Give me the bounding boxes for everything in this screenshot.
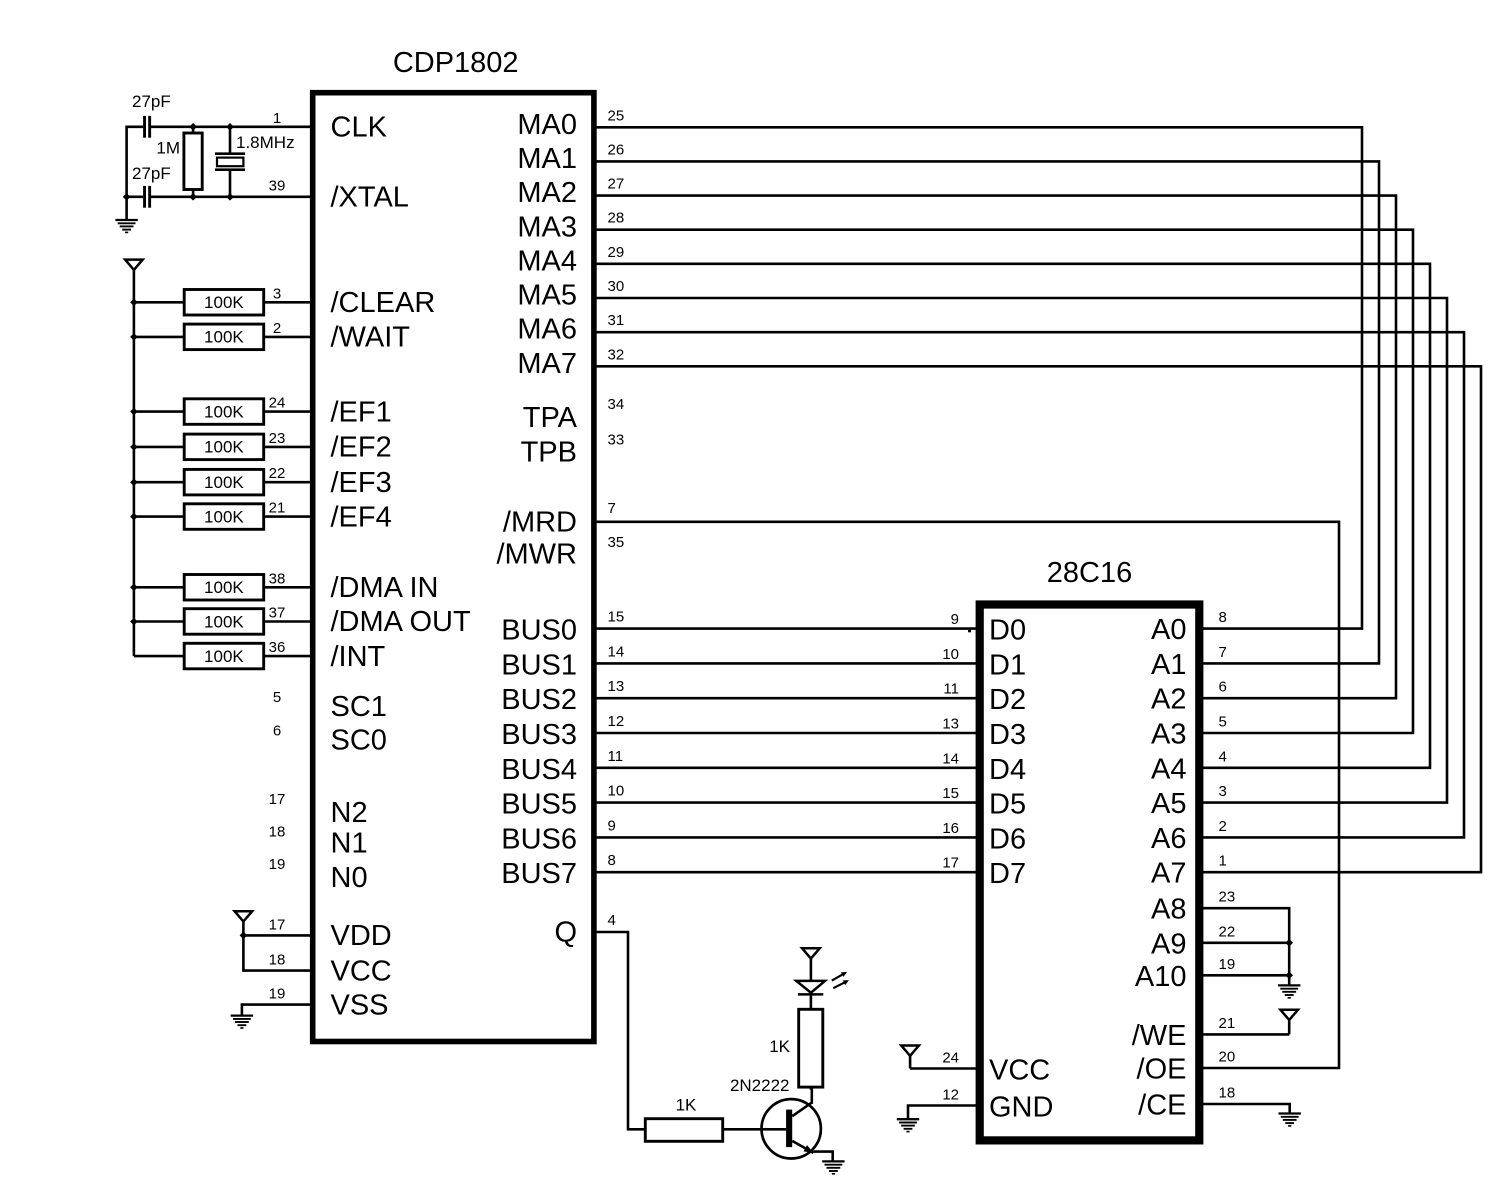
U1 pin 12 BUS3 [501, 713, 624, 751]
svg-text:N2: N2 [331, 797, 368, 829]
svg-text:22: 22 [269, 465, 286, 482]
wire MA3 to A3 [594, 230, 1413, 733]
U2 pin 6 A2 [1151, 679, 1227, 716]
U2 pin 20 /OE [1137, 1049, 1236, 1086]
resistor R9 100K (/DMA OUT) [134, 609, 312, 635]
U2 pin 24 VCC [910, 1050, 1050, 1087]
svg-text:13: 13 [608, 678, 625, 695]
R2 value 100K [204, 293, 244, 312]
svg-text:11: 11 [943, 681, 959, 698]
U1 pin 34 TPA [523, 396, 624, 434]
U1 pin 21 /EF4 [269, 500, 392, 534]
svg-text:MA7: MA7 [517, 348, 577, 380]
svg-text:MA1: MA1 [517, 143, 577, 175]
wire MA7 to A7 [594, 366, 1481, 872]
U1 pin 3 /CLEAR [273, 285, 435, 319]
svg-text:1K: 1K [769, 1037, 790, 1056]
svg-text:SC1: SC1 [331, 691, 387, 723]
svg-text:21: 21 [1219, 1015, 1236, 1032]
svg-text:19: 19 [269, 986, 286, 1003]
svg-text:/EF4: /EF4 [331, 501, 392, 533]
U2 pin 2 A6 [1151, 818, 1227, 855]
U2 pin 23 A8 [1151, 889, 1289, 986]
R10 value 100K [204, 647, 244, 666]
junction rail / /EF1 [130, 408, 138, 416]
D1 light arrow lower [833, 980, 849, 988]
svg-text:A0: A0 [1151, 614, 1186, 646]
svg-text:20: 20 [1219, 1049, 1236, 1066]
svg-text:A6: A6 [1151, 823, 1186, 855]
resistor R6 100K (/EF3) [134, 469, 312, 495]
wire Q1 collector to R11 [810, 1087, 813, 1089]
svg-text:30: 30 [608, 278, 625, 295]
U1 pin 17 N2 [269, 791, 368, 829]
wire BUS3 to D3 [594, 732, 981, 735]
wire BUS4 to D4 [594, 766, 981, 769]
svg-text:35: 35 [608, 534, 625, 551]
svg-text:/WAIT: /WAIT [331, 322, 411, 354]
U1 pin 37 /DMA OUT [269, 605, 471, 639]
ground /CE [1279, 1114, 1301, 1126]
chip U2 28C16 [980, 605, 1200, 1141]
U2 pin 10 D1 [942, 646, 1026, 682]
svg-text:14: 14 [608, 643, 625, 660]
wire Q to R10 [594, 932, 645, 1129]
wire pull-up rail [133, 302, 136, 656]
Q1 collector [792, 1087, 812, 1116]
Q1 emitter [792, 1141, 813, 1153]
Q1 label 2N2222 [730, 1076, 790, 1095]
U1 pin 32 MA7 [517, 346, 624, 380]
svg-text:SC0: SC0 [331, 724, 387, 756]
svg-text:BUS3: BUS3 [501, 719, 577, 751]
svg-text:8: 8 [608, 852, 616, 869]
svg-text:19: 19 [269, 856, 286, 873]
ground emitter [822, 1161, 844, 1173]
svg-text:15: 15 [942, 785, 959, 802]
svg-text:16: 16 [942, 820, 959, 837]
R7 value 100K [204, 507, 244, 526]
U1 pin 22 /EF3 [269, 465, 392, 499]
wire BUS2 to D2 [594, 697, 981, 700]
power VCC (LED) [802, 948, 820, 958]
U1 pin 10 BUS5 [501, 783, 624, 821]
R9 value 100K [204, 612, 244, 631]
U1 pin 7 /MRD [503, 500, 616, 539]
U1 pin 15 BUS0 [501, 609, 624, 647]
U2 pin 11 D2 [943, 681, 1026, 717]
U2 pin 8 A0 [1151, 609, 1227, 646]
C2 value 27pF [132, 164, 171, 183]
svg-text:24: 24 [269, 395, 286, 412]
svg-text:A8: A8 [1151, 894, 1186, 926]
U1 pin 14 BUS1 [501, 643, 624, 681]
wire BUS1 to D1 [594, 662, 981, 665]
U2 pin 1 A7 [1151, 853, 1227, 890]
U2 pin 9 D0 [951, 611, 1026, 647]
svg-text:BUS1: BUS1 [501, 649, 577, 681]
power VDD pull-up rail [125, 260, 143, 303]
wire XTAL net (pin 39 bottom) [127, 196, 312, 199]
svg-text:21: 21 [269, 500, 286, 517]
R6 value 100K [204, 473, 244, 492]
svg-text:A5: A5 [1151, 788, 1186, 820]
svg-text:BUS0: BUS0 [501, 615, 577, 647]
svg-text:7: 7 [608, 500, 616, 517]
U1 pin 1 CLK [273, 110, 388, 144]
svg-text:10: 10 [942, 646, 959, 663]
chip U1 CDP1802 [313, 93, 594, 1042]
svg-text:A2: A2 [1151, 684, 1186, 716]
svg-text:D7: D7 [989, 858, 1026, 890]
crystal Y1 1.8MHz [215, 127, 245, 197]
svg-text:37: 37 [269, 605, 286, 622]
resistor R1 1M [184, 127, 202, 197]
svg-text:MA0: MA0 [517, 109, 577, 141]
svg-text:/CE: /CE [1138, 1090, 1186, 1122]
R8 value 100K [204, 578, 244, 597]
junction rail / /WAIT [130, 333, 138, 341]
svg-text:BUS7: BUS7 [501, 858, 577, 890]
svg-text:24: 24 [942, 1050, 959, 1067]
power VCC (U2) [901, 1046, 919, 1069]
svg-text:/CLEAR: /CLEAR [331, 287, 436, 319]
U1 pin 28 MA3 [517, 210, 624, 244]
svg-text:VCC: VCC [989, 1055, 1050, 1087]
U1 pin 38 /DMA IN [269, 570, 439, 604]
svg-text:3: 3 [1219, 783, 1227, 800]
U1 pin 33 TPB [521, 432, 625, 469]
junction artifact near D0 [968, 629, 971, 632]
svg-text:34: 34 [608, 396, 625, 413]
wire MA6 to A6 [594, 332, 1464, 837]
U1 pin 23 /EF2 [269, 430, 392, 464]
svg-text:GND: GND [989, 1092, 1053, 1124]
U1 pin 31 MA6 [517, 312, 624, 346]
svg-text:A4: A4 [1151, 753, 1186, 785]
svg-text:100K: 100K [204, 578, 244, 597]
svg-text:100K: 100K [204, 328, 244, 347]
svg-text:BUS2: BUS2 [501, 684, 577, 716]
svg-text:14: 14 [942, 750, 959, 767]
svg-text:28: 28 [608, 210, 625, 227]
svg-text:D4: D4 [989, 754, 1026, 786]
U1 pin 5 SC1 [273, 689, 387, 723]
svg-text:TPB: TPB [521, 436, 577, 468]
power VDD (/WE) [1280, 1010, 1298, 1035]
svg-text:/EF1: /EF1 [331, 396, 392, 428]
svg-text:4: 4 [608, 912, 616, 929]
svg-text:18: 18 [1219, 1085, 1236, 1102]
svg-text:VDD: VDD [331, 920, 392, 952]
svg-text:1: 1 [273, 110, 281, 127]
svg-text:100K: 100K [204, 438, 244, 457]
U2 pin 18 /CE [1138, 1085, 1290, 1122]
svg-text:D1: D1 [989, 649, 1026, 681]
svg-text:D3: D3 [989, 719, 1026, 751]
svg-text:D6: D6 [989, 823, 1026, 855]
svg-text:22: 22 [1219, 923, 1236, 940]
svg-text:CDP1802: CDP1802 [393, 47, 519, 79]
wire Q1 emitter to ground [814, 1152, 833, 1162]
ground U2 GND [897, 1119, 919, 1131]
U1 pin 24 /EF1 [269, 395, 392, 429]
svg-text:CLK: CLK [331, 112, 388, 144]
svg-text:1K: 1K [676, 1096, 697, 1115]
U2 pin 21 /WE [1132, 1015, 1289, 1052]
wire BUS6 to D6 [594, 836, 981, 839]
ground crystal [115, 220, 137, 232]
svg-text:5: 5 [273, 689, 281, 706]
svg-text:17: 17 [269, 916, 286, 933]
svg-text:N0: N0 [331, 862, 368, 894]
capacitor C1 27pF [143, 116, 151, 138]
junction bottom wire / ground rail [123, 193, 131, 201]
svg-text:13: 13 [942, 716, 959, 733]
U2 pin 4 A4 [1151, 748, 1227, 785]
capacitor C2 27pF [143, 186, 151, 208]
U2 pin 7 A1 [1151, 644, 1227, 681]
svg-text:/MWR: /MWR [496, 538, 577, 570]
svg-text:12: 12 [608, 713, 625, 730]
svg-text:/DMA IN: /DMA IN [331, 572, 439, 604]
C1 value 27pF [132, 92, 171, 111]
svg-text:9: 9 [608, 817, 616, 834]
svg-text:2N2222: 2N2222 [730, 1076, 790, 1095]
svg-text:15: 15 [608, 609, 625, 626]
svg-text:25: 25 [608, 107, 625, 124]
svg-text:/EF2: /EF2 [331, 432, 392, 464]
svg-text:33: 33 [608, 432, 625, 449]
resistor R8 100K (/DMA IN) [134, 575, 312, 601]
svg-text:4: 4 [1219, 748, 1227, 765]
svg-text:100K: 100K [204, 293, 244, 312]
U1 pin 2 /WAIT [273, 320, 410, 354]
svg-text:29: 29 [608, 244, 625, 261]
wire MA0 to A0 [594, 127, 1362, 628]
wire crystal ground rail [125, 126, 128, 221]
svg-text:38: 38 [269, 570, 286, 587]
R4 value 100K [204, 402, 244, 421]
svg-text:BUS4: BUS4 [501, 754, 577, 786]
svg-text:A7: A7 [1151, 858, 1186, 890]
U2 pin 15 D5 [942, 785, 1026, 821]
svg-text:/INT: /INT [331, 641, 386, 673]
svg-text:/MRD: /MRD [503, 507, 577, 539]
R10 value 1K [676, 1096, 697, 1115]
U1 pin 39 /XTAL [269, 177, 409, 213]
svg-text:/DMA OUT: /DMA OUT [331, 606, 471, 638]
svg-text:D0: D0 [989, 615, 1026, 647]
svg-text:/XTAL: /XTAL [331, 182, 409, 214]
junction rail / /CLEAR [130, 299, 138, 307]
svg-text:VSS: VSS [331, 989, 389, 1021]
svg-text:31: 31 [608, 312, 625, 329]
svg-text:2: 2 [273, 320, 281, 337]
svg-text:100K: 100K [204, 647, 244, 666]
U2 pin 16 D6 [942, 820, 1026, 856]
ground VSS [231, 1016, 253, 1028]
U1 pin 17 VDD [243, 916, 391, 952]
U1 pin 6 SC0 [273, 722, 387, 756]
svg-text:A9: A9 [1151, 928, 1186, 960]
svg-text:17: 17 [269, 791, 286, 808]
transistor Q1 2N2222 [762, 1099, 821, 1158]
svg-text:100K: 100K [204, 402, 244, 421]
svg-text:MA4: MA4 [517, 245, 577, 277]
U2 pin 14 D4 [942, 750, 1026, 786]
svg-text:19: 19 [1219, 956, 1236, 973]
junction bottom wire / Y1 [226, 193, 234, 201]
svg-text:5: 5 [1219, 714, 1227, 731]
U1 pin 29 MA4 [517, 244, 624, 278]
svg-text:27: 27 [608, 176, 625, 193]
wire MA1 to A1 [594, 161, 1379, 663]
svg-text:32: 32 [608, 346, 625, 363]
svg-text:28C16: 28C16 [1047, 557, 1132, 589]
wire MA4 to A4 [594, 264, 1430, 768]
svg-text:MA5: MA5 [517, 280, 577, 312]
svg-text:A10: A10 [1135, 961, 1187, 993]
svg-text:17: 17 [942, 855, 959, 872]
wire R11 to LED [810, 995, 813, 1010]
svg-text:100K: 100K [204, 473, 244, 492]
svg-text:18: 18 [269, 823, 286, 840]
wire R10 to Q1 base [723, 1128, 786, 1131]
svg-text:VCC: VCC [331, 955, 392, 987]
U2 pin 13 D3 [942, 716, 1026, 752]
svg-text:6: 6 [273, 722, 281, 739]
svg-text:/OE: /OE [1137, 1054, 1187, 1086]
svg-text:26: 26 [608, 141, 625, 158]
junction top wire / R1 [189, 123, 197, 131]
svg-text:N1: N1 [331, 827, 368, 859]
U2 pin 17 D7 [942, 855, 1026, 891]
svg-text:2: 2 [1219, 818, 1227, 835]
svg-text:1.8MHz: 1.8MHz [236, 133, 295, 152]
junction VDD / VCC drop [240, 932, 248, 940]
wire BUS5 to D5 [594, 801, 981, 804]
svg-text:/EF3: /EF3 [331, 467, 392, 499]
U1 pin 27 MA2 [517, 176, 624, 210]
svg-text:1M: 1M [156, 139, 180, 158]
svg-text:MA2: MA2 [517, 177, 577, 209]
svg-text:Q: Q [554, 917, 577, 949]
svg-text:TPA: TPA [523, 402, 578, 434]
power VDD (U1) [235, 911, 253, 935]
svg-text:11: 11 [608, 748, 624, 765]
resistor R3 100K (/WAIT) [134, 324, 312, 350]
U2 pin 5 A3 [1151, 714, 1227, 751]
svg-text:BUS6: BUS6 [501, 823, 577, 855]
resistor R7 100K (/EF4) [134, 504, 312, 530]
U1 pin 35 /MWR [496, 534, 624, 571]
svg-text:39: 39 [269, 177, 286, 194]
U1 pin 8 BUS7 [501, 852, 616, 890]
svg-text:3: 3 [273, 285, 281, 302]
resistor R10 1K [645, 1119, 722, 1142]
junction top wire / Y1 [226, 123, 234, 131]
svg-text:D2: D2 [989, 684, 1026, 716]
U1 pin 11 BUS4 [501, 748, 623, 786]
wire MA5 to A5 [594, 298, 1447, 803]
svg-text:BUS5: BUS5 [501, 789, 577, 821]
R3 value 100K [204, 328, 244, 347]
junction rail / /DMA IN [130, 584, 138, 592]
ground A8-A10 [1278, 985, 1300, 997]
U1 pin 26 MA1 [517, 141, 624, 175]
svg-text:1: 1 [1219, 853, 1227, 870]
wire BUS7 to D7 [594, 871, 981, 874]
U1 pin 36 /INT [269, 639, 386, 673]
junction bottom wire / R1 [189, 193, 197, 201]
U1 pin 25 MA0 [517, 107, 624, 141]
U1 pin 13 BUS2 [501, 678, 624, 716]
resistor R10 100K (/INT) [134, 643, 312, 669]
U2 pin 19 A10 [1135, 956, 1289, 993]
svg-text:27pF: 27pF [132, 92, 171, 111]
U1 pin 18 N1 [269, 823, 368, 859]
svg-text:100K: 100K [204, 612, 244, 631]
U1 pin 19 VSS [242, 986, 389, 1022]
U2 pin 3 A5 [1151, 783, 1227, 820]
U1 pin 9 BUS6 [501, 817, 616, 855]
R1 value 1M [156, 139, 180, 158]
U2 title 28C16 [1047, 557, 1132, 589]
U2 pin 12 GND [908, 1087, 1053, 1124]
svg-text:9: 9 [951, 611, 959, 628]
svg-text:36: 36 [269, 639, 286, 656]
resistor R11 1K [799, 1009, 823, 1089]
R5 value 100K [204, 438, 244, 457]
D1 light arrow upper [832, 972, 847, 981]
junction rail / /EF3 [130, 478, 138, 486]
junction rail / /EF2 [130, 443, 138, 451]
svg-text:MA3: MA3 [517, 211, 577, 243]
U1 title CDP1802 [393, 47, 519, 79]
Y1 value 1.8MHz [236, 133, 295, 152]
resistor R4 100K (/EF1) [134, 399, 312, 425]
junction A9 / A8 rail [1285, 939, 1293, 947]
junction rail / /EF4 [130, 513, 138, 521]
svg-text:D5: D5 [989, 789, 1026, 821]
svg-text:A3: A3 [1151, 719, 1186, 751]
U1 pin 30 MA5 [517, 278, 624, 312]
wire LED anode [810, 959, 813, 982]
svg-text:10: 10 [608, 783, 625, 800]
svg-text:100K: 100K [204, 507, 244, 526]
wire /MRD to /OE [594, 522, 1339, 1068]
wire CLK net (pin 1 top) [127, 126, 312, 129]
junction rail / /DMA OUT [130, 618, 138, 626]
U1 pin 18 VCC [243, 935, 391, 987]
wire BUS0 to D0 [594, 627, 981, 630]
LED D1 [796, 981, 825, 995]
wire MA2 to A2 [594, 196, 1396, 699]
svg-text:12: 12 [942, 1087, 959, 1104]
junction A10 / A8 rail [1285, 972, 1293, 980]
svg-text:27pF: 27pF [132, 164, 171, 183]
svg-text:8: 8 [1219, 609, 1227, 626]
R11 value 1K [769, 1037, 790, 1056]
svg-text:23: 23 [269, 430, 286, 447]
U2 pin 22 A9 [1151, 923, 1289, 960]
svg-text:A1: A1 [1151, 649, 1186, 681]
svg-text:/WE: /WE [1132, 1020, 1187, 1052]
svg-text:23: 23 [1219, 889, 1236, 906]
svg-text:MA6: MA6 [517, 314, 577, 346]
svg-text:7: 7 [1219, 644, 1227, 661]
